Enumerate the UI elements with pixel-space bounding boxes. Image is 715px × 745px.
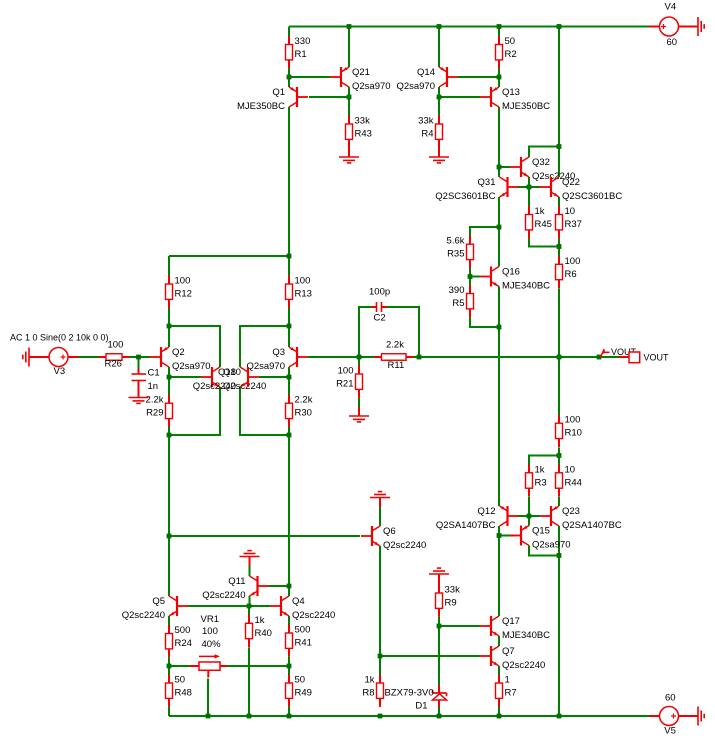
wire R44 to Q23 emitter [558,497,560,506]
svg-text:R10: R10 [565,428,582,439]
junction left column [167,534,172,539]
svg-text:100: 100 [202,626,218,637]
port VOUT [619,352,669,363]
svg-text:Q14: Q14 [417,67,435,78]
wire output to R10 [558,357,560,416]
svg-text:Q3: Q3 [272,347,285,358]
wire node A to Q1 emitter [288,77,290,87]
wire Q14 collector to node K [438,87,440,97]
svg-text:R49: R49 [295,688,312,699]
svg-text:AC 1 0 Sine(0 2 10k 0 0): AC 1 0 Sine(0 2 10k 0 0) [10,333,109,343]
junction node S [557,453,562,458]
wire Q11 emitter to bias node [249,596,251,606]
wire Q31 base to Q22 base [518,186,540,188]
wire node S to R44 [558,456,560,466]
junction LTP top [287,254,292,259]
resistor R35 [447,236,474,268]
source V5 lead right [679,715,699,717]
wire to Q4 collector [288,586,290,596]
junction node V [437,624,442,629]
power tee above Q6 [370,492,390,508]
svg-text:R26: R26 [105,359,122,370]
wire node I to VR1 left [169,665,190,667]
junction rail right [557,24,562,29]
junction rail R49 [287,714,292,719]
wire node K to Q13 base [439,96,480,98]
wire node D down left column [168,435,170,536]
junction node J [347,95,352,100]
svg-text:R35: R35 [447,249,464,260]
capacitor C2 [369,287,390,324]
wire R49 to bottom rail [288,707,290,716]
svg-text:Q13: Q13 [502,87,520,98]
junction node I [167,664,172,669]
junction comp left [357,355,362,360]
junction node P [497,225,502,230]
resistor R48 [166,675,192,707]
wire Q13 collector down [498,107,500,167]
wire node H to R49 [288,666,290,676]
svg-text:R29: R29 [146,408,163,419]
svg-text:R30: R30 [295,408,312,419]
transistor Q2 [150,347,211,372]
svg-text:Q12: Q12 [478,506,496,517]
wire VR1 right link [227,665,289,667]
wire Q1 base to node J [309,96,349,98]
ground right of V4 [698,17,704,36]
svg-text:60: 60 [665,693,676,704]
resistor R1 [286,36,311,68]
wire Q31 emitter down [498,197,500,227]
ground under R21 [349,407,369,422]
resistor R45 [526,206,552,238]
svg-text:VR1: VR1 [201,614,219,625]
junction node F [287,375,292,380]
svg-text:R37: R37 [565,219,582,230]
wire node F to R30 [288,377,290,395]
wire power tee to Q11 collector [249,566,251,576]
junction rail Q21 [347,24,352,29]
resistor R21 [336,366,362,398]
svg-text:33k: 33k [355,116,371,127]
junction bias node [247,604,252,609]
svg-text:R5: R5 [452,298,464,309]
svg-text:Q11: Q11 [228,576,245,587]
svg-text:2.2k: 2.2k [146,395,164,406]
wire node G down right column [288,435,290,586]
svg-text:Q2SC3601BC: Q2SC3601BC [562,191,622,202]
junction rail Q32 [557,144,562,149]
wire Q3 collector to node F [288,367,290,377]
wire node Q to Q16 base [470,276,480,278]
voltage source V5 [660,693,679,737]
svg-text:Q2sa970: Q2sa970 [396,81,435,92]
resistor R29 [146,395,173,427]
source V4 lead left [649,26,660,28]
source V3 lead right [68,356,79,358]
junction node Q [468,274,473,279]
svg-text:Q2: Q2 [172,347,185,358]
wire top positive rail [289,26,649,28]
svg-text:Q6: Q6 [383,526,396,537]
transistor Q17 [480,616,550,641]
ground under R43 [339,140,359,163]
svg-text:R21: R21 [336,379,353,390]
wire node E to Q3 emitter [288,326,290,347]
junction input node [136,355,141,360]
transistor Q32 [510,157,575,182]
wire R30 to node G [288,427,290,435]
source V4 lead right [679,26,699,28]
svg-text:R4: R4 [421,129,433,140]
potentiometer VR1 [190,614,227,678]
wire rail to Q22 collector [558,147,560,178]
junction rail Q14 [437,24,442,29]
resistor R41 [286,625,312,657]
wire Q15 collector to node U [529,546,559,556]
wire Q7 base line [380,655,480,657]
wire node U to bottom rail [558,556,560,717]
svg-text:R41: R41 [295,638,312,649]
svg-text:5.6k: 5.6k [447,236,465,247]
capacitor C1 [132,368,160,398]
junction node K [437,95,442,100]
svg-text:100: 100 [338,366,354,377]
wire node A to Q21 base [289,76,330,78]
svg-text:Q21: Q21 [352,67,370,78]
wire R10 to node S [558,448,560,456]
resistor R43 [346,116,372,148]
svg-text:1: 1 [505,675,510,686]
resistor R9 [436,585,461,617]
svg-text:Q2sc2240: Q2sc2240 [292,610,335,621]
power tee above Q11 [240,551,260,566]
svg-text:Q22: Q22 [562,177,580,188]
resistor R26 [99,340,130,370]
svg-text:Q2sc2240: Q2sc2240 [122,610,165,621]
wire R35 to node Q [469,268,471,277]
wire rail to Q21 emitter [348,27,350,68]
transistor Q4 [270,596,335,621]
svg-text:R13: R13 [295,289,312,300]
svg-text:500: 500 [295,625,311,636]
voltage source V3 [49,348,68,378]
svg-text:Q2SC3601BC: Q2SC3601BC [435,191,495,202]
transistor Q10 [201,367,266,392]
wire R13 to node E [288,308,290,327]
wire R12 to node B [168,308,170,327]
svg-text:40%: 40% [202,639,222,650]
junction vout tag [597,355,602,360]
svg-text:MJE350BC: MJE350BC [237,101,285,112]
junction rail R40 [247,714,252,719]
wire VAS column down [498,327,500,506]
junction node B [167,324,172,329]
wire Q3 base to R11 [308,356,374,358]
transistor Q12 [436,506,519,531]
resistor R6 [556,256,581,288]
svg-text:Q16: Q16 [502,267,520,278]
transistor Q6 [361,526,426,551]
resistor R12 [166,276,192,308]
transistor Q14 [396,67,458,92]
wire R45 to node O [529,239,559,247]
wire rail to R2 [498,27,500,37]
wire node O to R6 [558,247,560,257]
junction rail VR1 wiper [206,714,211,719]
wire R9 to node V [438,617,440,626]
svg-text:R24: R24 [175,638,192,649]
svg-text:Q18: Q18 [218,367,236,378]
junction rail R2 [497,24,502,29]
wire Q23 collector down [558,526,560,556]
svg-text:Q2sc2240: Q2sc2240 [502,660,545,671]
wire output line [414,356,620,358]
svg-text:R7: R7 [505,688,517,699]
wire node Q down to R5 [469,277,471,286]
svg-text:D1: D1 [415,701,427,712]
resistor R10 [556,415,582,447]
junction rail R8 [378,714,383,719]
transistor Q1 [237,87,308,112]
junction rail R7 [497,714,502,719]
svg-text:50: 50 [505,36,516,47]
junction rail right column [557,714,562,719]
wire Q10 emitter to node D [169,387,220,435]
junction driver bases [527,514,532,519]
wire R40 to bottom rail [248,648,250,717]
svg-text:V3: V3 [54,366,66,377]
svg-text:1k: 1k [535,206,545,217]
junction node H [287,664,292,669]
resistor R13 [286,276,312,308]
wire node K to R4 [438,97,440,116]
ground right of V5 [698,707,704,726]
wire Q5 base to bias node [188,605,249,607]
wire node E to Q18 collector [240,326,289,367]
transistor Q23 [540,506,622,531]
wire power tee to Q6 collector [379,508,381,527]
svg-text:R12: R12 [175,289,192,300]
svg-text:R40: R40 [255,628,272,639]
source V3 lead left [29,356,49,358]
wire node M to Q32 base [499,166,510,168]
junction node G [287,433,292,438]
svg-text:Q2sa970: Q2sa970 [352,81,391,92]
svg-text:390: 390 [449,285,465,296]
wire R37 to node O [558,239,560,247]
resistor R40 [246,615,272,647]
junction node A [287,75,292,80]
wire rail to Q14 emitter [438,27,440,68]
resistor R11 [374,340,414,372]
wire right rail drop [558,27,560,147]
svg-text:Q2sc2240: Q2sc2240 [383,540,426,551]
junction rail D1 [437,714,442,719]
svg-text:R43: R43 [355,129,372,140]
transistor Q3 [246,347,308,372]
junction node R [497,325,502,330]
label V3 spice directive [10,333,109,343]
svg-text:BZX79-3V0: BZX79-3V0 [385,688,434,699]
svg-text:Q23: Q23 [562,506,580,517]
wire Q6 base line [169,535,360,537]
transistor Q21 [330,67,391,92]
wire Q5 emitter to R24 [168,616,170,626]
wire Q6 emitter down [379,546,381,656]
wire Q22 emitter to R37 [558,197,560,206]
wire R13 top [288,256,290,276]
svg-text:R3: R3 [535,477,547,488]
wire node F to Q18 base [259,376,289,378]
ground left of V3 [23,348,29,367]
wire node C to Q10 base [169,376,201,378]
ground under C1 [129,398,149,404]
wire corner to R12 [168,256,170,276]
wire Q12 base to Q23 base [518,515,540,517]
wire V3 to R26 [79,356,99,358]
wire Q15 emitter up [528,516,530,526]
wire comp node to R21 [358,357,360,368]
wire Q12 collector down [498,526,500,536]
svg-text:10: 10 [565,206,576,217]
wire node R to R5 [470,318,499,328]
junction node T [497,533,502,538]
wire node I to R48 [168,666,170,676]
resistor R4 [418,116,442,148]
svg-text:R48: R48 [175,688,192,699]
wire rail to R1 [288,27,290,37]
wire R7 to bottom rail [498,707,500,716]
svg-text:2.2k: 2.2k [295,395,313,406]
resistor R44 [556,464,582,496]
svg-text:C2: C2 [374,313,386,324]
transistor Q16 [480,267,550,292]
wire Q18 emitter to node G [240,387,289,435]
wire R2 to node L [498,69,500,78]
wire R48 to bottom rail [168,707,170,716]
wire LTP top link [169,255,289,257]
svg-text:R6: R6 [565,269,577,280]
svg-text:1k: 1k [255,615,265,626]
svg-text:100: 100 [565,415,581,426]
svg-text:V4: V4 [665,2,677,13]
transistor Q18 [193,367,259,392]
svg-text:100p: 100p [369,287,390,298]
wire bias node to Q4 base [249,605,270,607]
wire node B to Q10 collector [169,326,220,367]
transistor Q5 [122,596,188,621]
wire Q4 emitter to R41 [288,616,290,626]
junction node C [167,375,172,380]
wire node C to R29 [168,377,170,395]
wire R26 to Q2 base [129,356,150,358]
wire node V to Q17 base [439,625,480,627]
wire Q17 emitter to Q7 collector [498,636,500,646]
wire Q7 base node to R8 [379,656,381,676]
resistor R3 [526,464,547,496]
wire node T to Q17 collector [498,536,500,617]
resistor R5 [449,285,474,317]
resistor R7 [496,675,517,707]
svg-text:10: 10 [565,464,576,475]
wire R6 to output node [558,289,560,358]
transistor Q31 [435,177,518,202]
wire R41 to node H [288,657,290,666]
power tee above R9 [429,568,449,593]
transistor Q7 [480,646,545,671]
svg-text:R8: R8 [362,688,374,699]
wire input node to C1 [138,357,140,369]
svg-text:100: 100 [565,256,581,267]
svg-text:Q2SA1407BC: Q2SA1407BC [562,520,622,531]
svg-text:100: 100 [175,276,191,287]
svg-text:33k: 33k [445,585,461,596]
wire R29 to node D [168,427,170,435]
transistor Q15 [510,526,571,551]
svg-text:MJE340BC: MJE340BC [502,630,550,641]
zener diode D1 [385,685,447,712]
voltage source V4 [660,2,679,49]
wire Q32 emitter to node N [528,177,530,187]
resistor R2 [496,36,517,68]
svg-text:Q15: Q15 [532,526,550,537]
wire R3 to base node [528,497,530,516]
svg-text:R2: R2 [505,49,517,60]
wire Q7 emitter to R7 [498,666,500,676]
wire node M to Q31 collector [498,167,500,177]
svg-text:R44: R44 [565,477,582,488]
resistor R49 [286,675,312,707]
svg-text:500: 500 [175,625,191,636]
junction node E [287,324,292,329]
transistor Q11 [202,576,268,601]
wire D1 to bottom rail [438,707,440,716]
svg-text:R1: R1 [295,49,307,60]
svg-text:MJE340BC: MJE340BC [502,281,550,292]
svg-text:Q2SA1407BC: Q2SA1407BC [436,520,496,531]
svg-text:1k: 1k [364,675,374,686]
junction Q7 base [378,654,383,659]
resistor R37 [556,206,582,238]
svg-text:MJE350BC: MJE350BC [502,101,550,112]
wire to Q5 collector [168,536,170,596]
junction node L [497,75,502,80]
wire comp node up [359,307,372,357]
svg-text:Q2sa970: Q2sa970 [172,361,211,372]
wire node V to D1 [438,626,440,685]
wire R1 to node A [288,69,290,78]
junction comp right [417,355,422,360]
svg-text:V5: V5 [664,726,676,737]
wire node P to R35 [470,227,499,236]
junction node D [167,433,172,438]
wire bottom negative rail [169,715,649,717]
wire bias node to R40 [248,606,250,616]
svg-text:Q2sa970: Q2sa970 [532,540,571,551]
wire Q21 collector to node J [348,87,350,97]
svg-text:R45: R45 [535,219,552,230]
junction node U [557,553,562,558]
junction node O [557,244,562,249]
svg-text:Q4: Q4 [292,596,305,607]
wire R24 to node I [168,658,170,667]
transistor Q22 [540,177,622,202]
svg-text:Q7: Q7 [502,646,515,657]
svg-text:1n: 1n [148,381,159,392]
svg-text:R9: R9 [445,598,457,609]
wire node T to Q15 base [499,535,514,537]
